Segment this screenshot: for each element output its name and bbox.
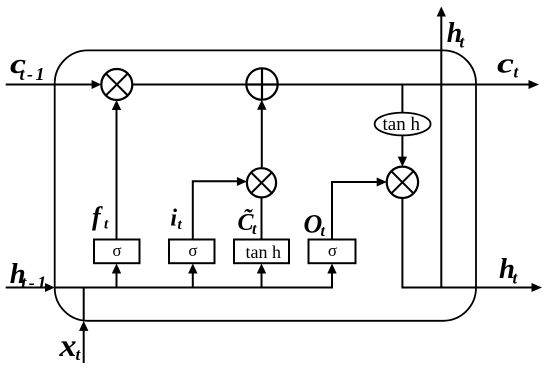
- svg-text:i: i: [170, 206, 177, 232]
- wire sigma i to X2: [193, 177, 247, 240]
- wire sigma f to X1: [112, 100, 121, 240]
- wire X3 down and right to h_t output: [402, 198, 542, 292]
- label O_t: [304, 210, 326, 241]
- multiply node X1 (forget product): [101, 69, 132, 100]
- wire X1 to add node: [132, 84, 246, 86]
- wire tanh to X3: [398, 135, 407, 166]
- bus arrow to sigma i: [188, 264, 197, 288]
- svg-text:σ: σ: [112, 241, 121, 260]
- svg-text:t-1: t-1: [20, 64, 48, 84]
- svg-text:t: t: [321, 223, 326, 240]
- label f_t: [92, 202, 109, 233]
- wire h_t vertical up: [437, 7, 446, 288]
- label h_t-1: [10, 258, 49, 293]
- tanh box: [234, 240, 289, 264]
- svg-text:c: c: [497, 48, 514, 80]
- tanh ellipse: [375, 113, 431, 136]
- sigma box i: [169, 240, 215, 264]
- sigma box o: [309, 240, 356, 264]
- svg-text:x: x: [58, 327, 76, 363]
- bus arrow to tanh box: [257, 264, 266, 288]
- multiply node X2 (input product): [247, 168, 276, 197]
- label x_t: [58, 327, 81, 364]
- wire tanh box to X2: [261, 197, 263, 239]
- wire branch from c line down to tanh: [401, 85, 403, 113]
- cell body rounded rectangle: [55, 50, 476, 320]
- wire c_t-1 input: [6, 80, 102, 89]
- wire X2 up to add node: [257, 100, 266, 169]
- bus arrow to sigma f: [112, 264, 121, 288]
- svg-text:σ: σ: [328, 241, 337, 260]
- label i_t: [170, 206, 182, 234]
- label C~_t: [238, 210, 258, 238]
- multiply node X3 (output product): [387, 167, 418, 198]
- wire input bus with turn up into sigma o: [55, 264, 337, 288]
- label c_t-1: [10, 48, 47, 84]
- label h_t top: [447, 18, 466, 52]
- wire h_t-1 input: [6, 283, 55, 292]
- wire x_t input: [79, 288, 88, 364]
- wire sigma o to X3: [332, 178, 387, 240]
- label h_t right: [499, 253, 519, 288]
- label c_t output: [497, 48, 520, 82]
- svg-text:t-1: t-1: [21, 273, 49, 293]
- svg-text:σ: σ: [188, 241, 197, 260]
- wire add node to c_t output: [278, 80, 539, 89]
- sigma box f: [94, 240, 140, 264]
- add node P1: [246, 68, 277, 99]
- svg-text:tan h: tan h: [383, 114, 421, 135]
- svg-text:t: t: [252, 221, 257, 238]
- svg-text:tan h: tan h: [246, 242, 282, 262]
